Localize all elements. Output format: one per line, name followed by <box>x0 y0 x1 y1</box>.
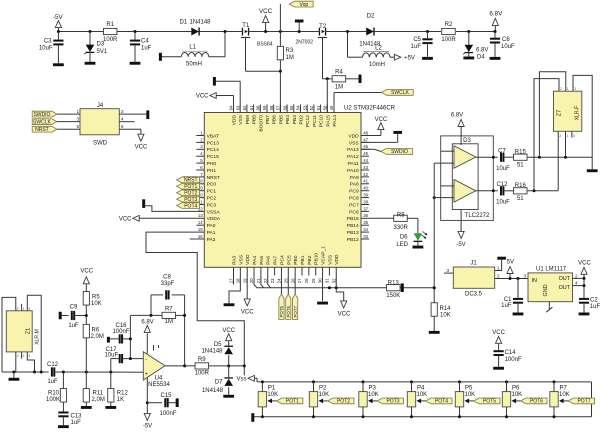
svg-text:2: 2 <box>575 273 578 278</box>
svg-text:L2: L2 <box>375 45 382 51</box>
svg-text:SWD: SWD <box>93 141 108 147</box>
svg-text:3: 3 <box>76 116 79 121</box>
svg-text:R2: R2 <box>445 22 453 28</box>
svg-text:P1: P1 <box>268 385 276 391</box>
svg-text:PA13: PA13 <box>347 147 359 153</box>
svg-text:VDD: VDD <box>348 133 359 139</box>
svg-text:50: 50 <box>323 105 328 110</box>
svg-text:PC4: PC4 <box>279 255 285 265</box>
svg-text:C3: C3 <box>44 39 52 45</box>
svg-text:1uF: 1uF <box>71 420 82 426</box>
svg-text:Z7: Z7 <box>557 110 563 116</box>
svg-text:PA10: PA10 <box>347 168 359 174</box>
svg-text:PA9: PA9 <box>350 175 359 181</box>
svg-text:49: 49 <box>329 105 334 110</box>
svg-text:VDD: VDD <box>232 115 238 126</box>
svg-text:PC2: PC2 <box>207 196 217 202</box>
svg-text:PB2: PB2 <box>307 255 313 265</box>
svg-text:100R: 100R <box>103 37 118 43</box>
svg-text:PC7: PC7 <box>349 202 359 208</box>
svg-text:POT1: POT1 <box>286 399 299 405</box>
svg-text:D1: D1 <box>179 20 187 26</box>
svg-text:51: 51 <box>517 162 524 168</box>
svg-text:PB1: PB1 <box>300 255 306 265</box>
svg-text:POT2: POT2 <box>337 399 350 405</box>
svg-text:OUT: OUT <box>559 285 571 291</box>
svg-text:U1 LM1117: U1 LM1117 <box>536 266 567 272</box>
svg-text:D3: D3 <box>463 138 471 144</box>
svg-text:30: 30 <box>318 278 323 283</box>
svg-text:PC5: PC5 <box>286 255 292 265</box>
svg-text:PA2: PA2 <box>207 237 216 243</box>
svg-text:10K: 10K <box>417 392 428 398</box>
svg-text:2: 2 <box>17 354 19 358</box>
svg-text:18: 18 <box>236 278 241 283</box>
svg-text:R16: R16 <box>515 183 527 189</box>
svg-text:6: 6 <box>121 124 124 129</box>
svg-text:+: + <box>145 372 148 378</box>
svg-text:POT1: POT1 <box>184 184 197 190</box>
svg-text:33: 33 <box>363 234 368 239</box>
svg-text:TLC2272: TLC2272 <box>465 213 490 219</box>
svg-text:PB3: PB3 <box>292 115 298 125</box>
svg-text:37: 37 <box>363 206 368 211</box>
svg-text:POT2: POT2 <box>184 191 197 197</box>
svg-text:R13: R13 <box>388 280 400 286</box>
svg-text:VCC: VCC <box>375 117 388 123</box>
svg-text:NRST: NRST <box>35 127 49 133</box>
svg-text:PC8: PC8 <box>349 196 359 202</box>
svg-text:VBAT: VBAT <box>207 133 219 139</box>
svg-text:OUT: OUT <box>559 276 571 282</box>
svg-text:20: 20 <box>249 278 254 283</box>
svg-text:C13: C13 <box>71 414 83 420</box>
svg-text:52: 52 <box>309 105 314 110</box>
svg-text:1: 1 <box>567 134 569 138</box>
svg-text:PB9: PB9 <box>245 115 251 125</box>
svg-text:PB7: PB7 <box>265 115 271 125</box>
svg-text:PC3: PC3 <box>207 202 217 208</box>
svg-text:29: 29 <box>311 278 316 283</box>
svg-text:Vss: Vss <box>236 377 246 383</box>
svg-text:C2: C2 <box>590 298 598 304</box>
svg-text:1M: 1M <box>335 85 343 91</box>
svg-text:41: 41 <box>363 179 368 184</box>
svg-text:38: 38 <box>363 199 368 204</box>
svg-text:XLR-F: XLR-F <box>575 106 581 120</box>
svg-text:PC14: PC14 <box>207 147 220 153</box>
svg-text:VCC: VCC <box>222 328 235 334</box>
svg-text:D2: D2 <box>367 14 375 20</box>
svg-text:R8: R8 <box>397 212 405 218</box>
svg-text:+5V: +5V <box>404 56 415 62</box>
svg-text:3: 3 <box>573 134 575 138</box>
svg-text:VDD: VDD <box>334 254 340 265</box>
svg-text:40: 40 <box>363 186 368 191</box>
svg-text:23: 23 <box>270 278 275 283</box>
svg-text:C12: C12 <box>47 362 59 368</box>
svg-text:100K: 100K <box>46 397 60 403</box>
svg-text:VSS: VSS <box>327 254 333 265</box>
svg-text:C9: C9 <box>70 305 78 311</box>
svg-text:NRST: NRST <box>207 175 220 181</box>
svg-text:35: 35 <box>363 220 368 225</box>
svg-text:P6: P6 <box>512 385 520 391</box>
svg-text:POT4: POT4 <box>435 399 448 405</box>
svg-text:10uF: 10uF <box>501 44 515 50</box>
svg-text:PC0: PC0 <box>207 182 217 188</box>
svg-text:SWCLK: SWCLK <box>391 90 409 96</box>
svg-text:2N7002: 2N7002 <box>296 39 314 45</box>
svg-text:150K: 150K <box>386 293 400 299</box>
svg-text:R5: R5 <box>92 294 100 300</box>
svg-text:C5: C5 <box>413 37 421 43</box>
svg-text:1: 1 <box>497 266 500 271</box>
svg-text:1uF: 1uF <box>590 304 600 310</box>
svg-text:VCC: VCC <box>492 330 505 336</box>
svg-text:DC3,5: DC3,5 <box>465 292 483 298</box>
svg-text:17: 17 <box>229 278 234 283</box>
svg-text:1K: 1K <box>117 397 124 403</box>
svg-text:D5: D5 <box>214 342 222 348</box>
svg-text:-5V: -5V <box>143 424 152 430</box>
svg-text:47: 47 <box>363 137 368 142</box>
svg-text:10uF: 10uF <box>496 166 510 172</box>
svg-text:C8: C8 <box>163 274 171 280</box>
svg-text:PC9: PC9 <box>349 189 359 195</box>
svg-text:NE5534: NE5534 <box>148 382 170 388</box>
svg-text:PH0: PH0 <box>207 161 217 167</box>
svg-text:100R: 100R <box>195 370 210 376</box>
svg-text:SWDIO: SWDIO <box>391 149 408 155</box>
svg-text:33pF: 33pF <box>161 281 175 287</box>
svg-text:330R: 330R <box>394 225 409 231</box>
svg-text:10K: 10K <box>559 392 570 398</box>
svg-text:R6: R6 <box>92 328 100 334</box>
svg-text:22: 22 <box>263 278 268 283</box>
svg-text:PA15: PA15 <box>325 115 331 127</box>
svg-text:VCC: VCC <box>241 309 254 315</box>
svg-text:Z1: Z1 <box>26 328 32 334</box>
svg-text:BOOT0: BOOT0 <box>258 115 264 132</box>
svg-text:44: 44 <box>363 158 368 163</box>
svg-text:6.8V: 6.8V <box>451 112 463 118</box>
svg-text:1M: 1M <box>286 55 294 61</box>
svg-text:PA5: PA5 <box>259 256 265 265</box>
svg-text:PB8: PB8 <box>252 115 258 125</box>
svg-text:PC13: PC13 <box>207 140 220 146</box>
svg-text:13: 13 <box>198 213 203 218</box>
svg-text:10K: 10K <box>465 392 476 398</box>
svg-text:50mH: 50mH <box>186 62 202 68</box>
svg-text:VDDA: VDDA <box>207 216 221 222</box>
svg-text:48: 48 <box>363 130 368 135</box>
svg-text:51: 51 <box>316 105 321 110</box>
svg-text:5: 5 <box>76 124 79 129</box>
svg-text:31: 31 <box>325 278 330 283</box>
svg-text:P7: P7 <box>560 385 568 391</box>
svg-text:D6: D6 <box>400 235 408 241</box>
svg-text:60: 60 <box>256 105 261 110</box>
svg-text:PA6: PA6 <box>266 256 272 265</box>
svg-text:C14: C14 <box>505 350 517 356</box>
svg-text:10uF: 10uF <box>496 199 510 205</box>
svg-text:43: 43 <box>363 165 368 170</box>
svg-text:25: 25 <box>284 278 289 283</box>
svg-text:VCC: VCC <box>135 144 148 150</box>
svg-text:R10: R10 <box>48 391 60 397</box>
svg-text:SWCLK: SWCLK <box>33 119 51 125</box>
svg-text:PC11: PC11 <box>312 115 318 127</box>
svg-text:PB14: PB14 <box>347 223 359 229</box>
svg-text:SWDIO: SWDIO <box>33 112 50 118</box>
svg-text:27: 27 <box>297 278 302 283</box>
svg-text:R15: R15 <box>515 150 527 156</box>
svg-text:PA1: PA1 <box>207 230 216 236</box>
svg-text:15: 15 <box>198 227 203 232</box>
svg-text:PB6: PB6 <box>272 115 278 125</box>
svg-text:28: 28 <box>304 278 309 283</box>
svg-text:R12: R12 <box>117 391 129 397</box>
svg-text:6.8V: 6.8V <box>489 10 503 17</box>
svg-text:100nF: 100nF <box>159 411 176 417</box>
svg-text:1: 1 <box>567 87 569 91</box>
svg-text:1uF: 1uF <box>68 323 79 329</box>
svg-text:26: 26 <box>290 278 295 283</box>
svg-text:PC15: PC15 <box>207 154 220 160</box>
svg-text:L1: L1 <box>189 45 196 51</box>
svg-text:56: 56 <box>282 105 287 110</box>
svg-text:PA8: PA8 <box>350 182 359 188</box>
svg-text:1: 1 <box>76 109 79 114</box>
svg-text:PH1: PH1 <box>207 168 217 174</box>
svg-text:PB15: PB15 <box>347 216 359 222</box>
svg-text:10mH: 10mH <box>369 62 385 68</box>
svg-text:1uF: 1uF <box>501 303 512 309</box>
svg-text:24: 24 <box>277 278 282 283</box>
svg-text:4: 4 <box>121 116 124 121</box>
svg-text:2,0M: 2,0M <box>91 334 104 340</box>
svg-text:5V1: 5V1 <box>97 49 108 55</box>
svg-text:45: 45 <box>363 151 368 156</box>
svg-text:R11: R11 <box>93 391 104 397</box>
svg-text:63: 63 <box>235 105 240 110</box>
svg-text:C4: C4 <box>141 39 149 45</box>
svg-text:64: 64 <box>229 105 234 110</box>
svg-text:VDD: VDD <box>245 254 251 265</box>
svg-text:100R: 100R <box>441 37 456 43</box>
svg-text:PA4: PA4 <box>252 256 258 265</box>
svg-text:R4: R4 <box>335 70 343 76</box>
svg-text:2: 2 <box>497 274 500 279</box>
svg-text:42: 42 <box>363 172 368 177</box>
svg-text:34: 34 <box>363 227 368 232</box>
svg-text:3: 3 <box>446 268 449 273</box>
svg-text:57: 57 <box>276 105 281 110</box>
svg-text:-: - <box>145 357 147 363</box>
svg-text:PB5: PB5 <box>278 115 284 125</box>
svg-text:T2: T2 <box>319 24 327 30</box>
svg-text:T1: T1 <box>242 23 250 29</box>
svg-text:PB0: PB0 <box>293 255 299 265</box>
svg-text:3: 3 <box>574 87 576 91</box>
svg-text:BSS84: BSS84 <box>257 42 273 48</box>
svg-text:-5V: -5V <box>456 242 465 248</box>
svg-text:10K: 10K <box>512 392 523 398</box>
svg-text:P4: P4 <box>417 385 425 391</box>
svg-text:19: 19 <box>242 278 247 283</box>
svg-text:VCC: VCC <box>578 261 591 267</box>
svg-text:1N4148: 1N4148 <box>189 20 211 26</box>
svg-text:PA7: PA7 <box>273 256 279 265</box>
svg-text:POT5: POT5 <box>279 305 284 317</box>
svg-text:C7: C7 <box>498 148 506 154</box>
svg-text:XLR-M: XLR-M <box>35 329 41 345</box>
svg-text:6.8V: 6.8V <box>476 47 488 53</box>
svg-text:NRST: NRST <box>184 178 198 184</box>
svg-text:R1: R1 <box>106 22 114 28</box>
svg-text:U4: U4 <box>155 375 163 381</box>
svg-text:VSSA: VSSA <box>207 209 221 215</box>
svg-text:POT5: POT5 <box>483 399 496 405</box>
svg-text:4: 4 <box>575 281 578 286</box>
svg-text:-5V: -5V <box>53 14 64 21</box>
svg-text:5V: 5V <box>507 260 514 266</box>
svg-text:POT4: POT4 <box>184 203 197 209</box>
svg-text:2: 2 <box>17 307 19 311</box>
svg-text:POT3: POT3 <box>184 197 197 203</box>
svg-text:J1: J1 <box>470 260 477 266</box>
svg-text:2,0M: 2,0M <box>92 397 105 403</box>
svg-text:PB4: PB4 <box>285 115 291 125</box>
svg-text:C1: C1 <box>504 297 512 303</box>
svg-text:POT7: POT7 <box>293 305 298 317</box>
svg-text:PA11: PA11 <box>347 161 359 167</box>
svg-text:1: 1 <box>23 354 25 358</box>
svg-text:P5: P5 <box>465 385 473 391</box>
svg-text:POT7: POT7 <box>577 399 590 405</box>
svg-text:D7: D7 <box>215 379 223 385</box>
svg-text:10K: 10K <box>368 392 379 398</box>
svg-text:VCAP_1: VCAP_1 <box>321 246 327 265</box>
svg-text:62: 62 <box>242 105 247 110</box>
svg-text:6.8V: 6.8V <box>141 319 153 325</box>
svg-text:PC1: PC1 <box>207 189 217 195</box>
svg-text:VCC: VCC <box>338 311 351 317</box>
svg-text:2: 2 <box>121 109 124 114</box>
svg-text:IN: IN <box>532 278 537 284</box>
svg-text:55: 55 <box>289 105 294 110</box>
svg-text:16: 16 <box>198 234 203 239</box>
svg-text:J4: J4 <box>97 103 104 109</box>
svg-text:D4: D4 <box>477 55 485 61</box>
svg-text:1M: 1M <box>165 319 173 325</box>
svg-text:R9: R9 <box>198 357 206 363</box>
svg-text:VCC: VCC <box>119 216 132 222</box>
svg-text:POT6: POT6 <box>286 305 291 317</box>
svg-text:PC12: PC12 <box>305 115 311 128</box>
svg-text:3: 3 <box>28 307 30 311</box>
svg-text:10K: 10K <box>267 392 278 398</box>
svg-text:39: 39 <box>363 193 368 198</box>
svg-text:10uF: 10uF <box>39 46 53 52</box>
svg-text:U2 STM32F446CR: U2 STM32F446CR <box>344 106 396 112</box>
svg-text:3: 3 <box>28 354 30 358</box>
svg-text:C6: C6 <box>502 37 510 43</box>
svg-text:VCC: VCC <box>80 269 93 275</box>
svg-text:R14: R14 <box>440 306 452 312</box>
svg-text:POT3: POT3 <box>386 399 399 405</box>
svg-text:61: 61 <box>249 105 254 110</box>
svg-text:2: 2 <box>559 134 561 138</box>
svg-text:VSS: VSS <box>349 140 360 146</box>
svg-text:P3: P3 <box>369 385 377 391</box>
svg-text:PB13: PB13 <box>347 230 359 236</box>
svg-text:P2: P2 <box>319 385 327 391</box>
svg-text:32: 32 <box>331 278 336 283</box>
svg-text:58: 58 <box>269 105 274 110</box>
svg-text:PC10: PC10 <box>319 115 325 128</box>
svg-text:Vop: Vop <box>300 2 309 8</box>
svg-text:PA0: PA0 <box>207 223 216 229</box>
svg-text:1uF: 1uF <box>47 379 58 385</box>
svg-text:1N4148: 1N4148 <box>202 388 224 394</box>
svg-text:100nF: 100nF <box>112 329 129 335</box>
svg-text:R3: R3 <box>286 48 294 54</box>
svg-text:PA12: PA12 <box>347 154 359 160</box>
svg-text:59: 59 <box>262 105 267 110</box>
svg-text:VCC: VCC <box>196 94 209 100</box>
svg-text:10K: 10K <box>440 313 451 319</box>
svg-text:14: 14 <box>198 220 203 225</box>
svg-text:3: 3 <box>523 274 526 279</box>
svg-text:100nF: 100nF <box>505 357 522 363</box>
svg-text:1uF: 1uF <box>411 44 422 50</box>
svg-text:36: 36 <box>363 213 368 218</box>
svg-text:VSS: VSS <box>238 114 244 125</box>
svg-text:10uF: 10uF <box>105 353 119 359</box>
svg-text:C12: C12 <box>496 182 508 188</box>
svg-text:10K: 10K <box>91 301 102 307</box>
svg-text:1N4148: 1N4148 <box>201 348 223 354</box>
svg-text:1uF: 1uF <box>141 46 152 52</box>
svg-text:PD2: PD2 <box>299 115 305 125</box>
svg-text:21: 21 <box>256 278 261 283</box>
svg-text:PB10: PB10 <box>314 253 320 265</box>
svg-text:10K: 10K <box>319 392 330 398</box>
svg-text:PA3: PA3 <box>232 256 238 265</box>
svg-text:POT6: POT6 <box>530 399 543 405</box>
svg-text:1: 1 <box>23 307 25 311</box>
svg-text:51: 51 <box>517 196 524 202</box>
svg-text:R7: R7 <box>165 307 173 313</box>
svg-text:VSS: VSS <box>238 254 244 265</box>
svg-text:GND: GND <box>543 284 549 296</box>
svg-text:LED: LED <box>396 242 408 248</box>
svg-text:PC6: PC6 <box>349 209 359 215</box>
svg-text:53: 53 <box>302 105 307 110</box>
svg-text:54: 54 <box>296 105 301 110</box>
svg-text:VCC: VCC <box>259 8 273 15</box>
svg-text:PA14: PA14 <box>332 115 338 127</box>
svg-text:46: 46 <box>363 144 368 149</box>
svg-text:PB12: PB12 <box>347 237 359 243</box>
svg-text:C15: C15 <box>160 393 172 399</box>
svg-text:2: 2 <box>560 87 562 91</box>
